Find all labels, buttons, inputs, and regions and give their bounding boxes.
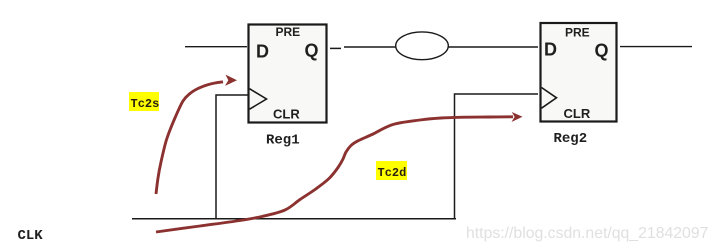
svg-text:PRE: PRE: [565, 25, 590, 39]
svg-text:Q: Q: [305, 41, 319, 61]
wire: Q1 to logic bubble: [344, 46, 396, 48]
label Tc2s (yellow highlight): [129, 92, 159, 111]
svg-text:Tc2s: Tc2s: [131, 97, 160, 111]
clock input triangle of Reg1: [250, 89, 267, 110]
wire: logic bubble to D input of Reg2: [449, 46, 538, 48]
svg-text:D: D: [544, 40, 557, 60]
arrowhead of Tc2s: [225, 75, 237, 86]
svg-text:CLR: CLR: [564, 106, 591, 121]
wire: Q2 output net: [620, 46, 692, 48]
wire: CLK branch to Reg2 clock input: [455, 94, 539, 219]
svg-text:Q: Q: [595, 41, 609, 61]
svg-text:PRE: PRE: [276, 25, 301, 39]
flip-flop Reg1 body: [249, 25, 327, 123]
svg-text:D: D: [256, 42, 269, 62]
svg-text:Reg1: Reg1: [266, 133, 300, 149]
arrowhead of Tc2d: [512, 112, 523, 122]
svg-text:Tc2d: Tc2d: [378, 166, 407, 180]
combinational logic bubble (ellipse): [396, 32, 449, 60]
arrow Tc2s: clock skew path curve: [156, 82, 223, 194]
svg-text:CLK: CLK: [18, 228, 44, 244]
svg-text:CLR: CLR: [273, 107, 300, 122]
svg-text:Reg2: Reg2: [554, 131, 588, 147]
wire: Q1 output stub: [330, 47, 341, 49]
wire: D input net into Reg1: [185, 46, 247, 48]
flip-flop Reg2 body: [541, 23, 617, 122]
clock input triangle of Reg2: [542, 88, 557, 109]
arrow Tc2d: data path delay curve: [156, 117, 513, 232]
net CLK: horizontal clock line: [132, 218, 456, 220]
wire: CLK branch to Reg1 clock input: [216, 95, 248, 219]
svg-text:https://blog.csdn.net/qq_21842: https://blog.csdn.net/qq_21842097: [466, 225, 708, 242]
label Tc2d (yellow highlight): [376, 161, 407, 180]
